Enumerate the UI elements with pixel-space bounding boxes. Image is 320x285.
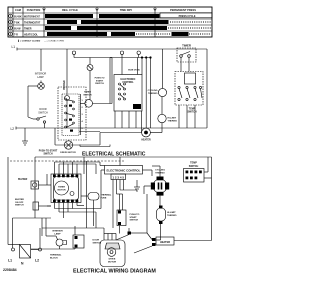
svg-text:THERMAL: THERMAL [101,194,112,197]
svg-text:CYCLING: CYCLING [148,90,158,92]
svg-text:L1: L1 [12,45,16,49]
svg-text:2208484: 2208484 [3,268,17,272]
svg-text:MOTOR: MOTOR [57,189,66,191]
svg-text:MOTOR/HEAT: MOTOR/HEAT [24,16,40,19]
svg-text:LAMP: LAMP [37,76,44,79]
svg-text:THERMO: THERMO [148,93,158,95]
svg-text:TIMER: TIMER [58,187,65,189]
svg-text:CAM: CAM [15,8,21,12]
svg-text:DOOR: DOOR [93,240,100,242]
svg-text:SWITCH: SWITCH [187,111,196,113]
svg-text:T-BK: T-BK [14,22,20,25]
svg-text:PUSH-TO: PUSH-TO [95,78,105,80]
svg-text:TERMINAL: TERMINAL [50,254,62,257]
svg-text:DRIVE MOTOR: DRIVE MOTOR [60,152,76,154]
svg-text:MOTOR: MOTOR [108,261,117,263]
svg-text:— = CONTACT OPEN: — = CONTACT OPEN [44,39,65,42]
svg-text:BU-BK: BU-BK [14,16,22,19]
svg-text:LAMP: LAMP [54,232,61,235]
svg-text:HEAT/COOL: HEAT/COOL [24,34,38,37]
svg-text:1: 1 [82,100,84,102]
svg-text:START: START [96,79,104,82]
svg-text:REG. CYCLE: REG. CYCLE [62,8,78,12]
svg-text:MOTOR: MOTOR [83,94,92,96]
svg-text:CONTROL: CONTROL [122,82,134,84]
svg-text:SWITCH: SWITCH [189,165,199,168]
svg-text:BUZZER: BUZZER [64,80,66,90]
svg-text:3: 3 [82,114,84,116]
svg-text:T-R: T-R [14,34,18,37]
svg-text:ON-OFF: ON-OFF [15,202,24,204]
svg-text:PUSH-TO-START: PUSH-TO-START [39,150,58,153]
svg-text:FUSE: FUSE [101,197,107,199]
svg-text:BUZZER: BUZZER [18,179,28,181]
svg-text:PUSH-TO: PUSH-TO [130,214,140,216]
svg-text:THERMO: THERMO [168,120,178,122]
svg-text:INTERIOR: INTERIOR [52,231,63,233]
svg-text:HI-LIMIT: HI-LIMIT [167,212,176,214]
svg-text:BUZZER: BUZZER [15,199,24,201]
svg-text:SWITCH: SWITCH [43,154,52,156]
svg-text:SWITCH: SWITCH [15,205,24,207]
svg-text:TIME DRY: TIME DRY [120,8,133,12]
svg-text:W-BK OR BU: W-BK OR BU [128,70,140,72]
svg-text:TIMER: TIMER [182,44,191,48]
svg-text:THERMO: THERMO [155,172,165,174]
svg-text:TEMP: TEMP [189,109,196,111]
svg-text:PERMANENT PRESS: PERMANENT PRESS [170,8,196,12]
svg-text:SWITCH: SWITCH [95,83,104,85]
svg-text:ELECTRICAL WIRING DIAGRAM: ELECTRICAL WIRING DIAGRAM [73,269,156,275]
svg-text:THERMO: THERMO [167,215,177,217]
svg-text:L2: L2 [11,127,15,131]
svg-text:DRIVE: DRIVE [109,259,116,261]
svg-text:TIMER: TIMER [24,28,32,31]
svg-text:L2: L2 [35,259,39,263]
svg-text:BU-W: BU-W [14,28,21,31]
svg-text:SWITCH: SWITCH [130,220,139,222]
svg-text:L1: L1 [8,259,12,263]
svg-text:PRESS CYCLE: PRESS CYCLE [179,15,196,18]
svg-text:4: 4 [82,120,84,123]
svg-text:FUNCTION: FUNCTION [27,8,41,12]
svg-text:1 2 3 4 5: 1 2 3 4 5 [112,176,124,180]
svg-text:SWITCH: SWITCH [38,111,48,114]
svg-text:2: 2 [82,107,84,109]
svg-text:ELECTRONIC: ELECTRONIC [121,79,136,81]
svg-text:ELECTRONIC CONTROL: ELECTRONIC CONTROL [107,169,141,173]
svg-text:BLOCK: BLOCK [50,257,58,259]
svg-text:HEATER: HEATER [141,139,151,142]
svg-text:CYCLING: CYCLING [155,170,165,172]
svg-text:HI-LIMIT: HI-LIMIT [168,118,177,120]
svg-text:N: N [21,262,24,266]
svg-text:▌ = CONTACT CLOSED: ▌ = CONTACT CLOSED [18,39,41,42]
svg-text:HEATER: HEATER [160,241,170,244]
svg-text:SWITCH: SWITCH [93,242,102,244]
svg-text:TIMER: TIMER [84,92,91,94]
svg-text:THERMOSTAT: THERMOSTAT [24,22,41,25]
svg-text:START: START [130,216,138,219]
